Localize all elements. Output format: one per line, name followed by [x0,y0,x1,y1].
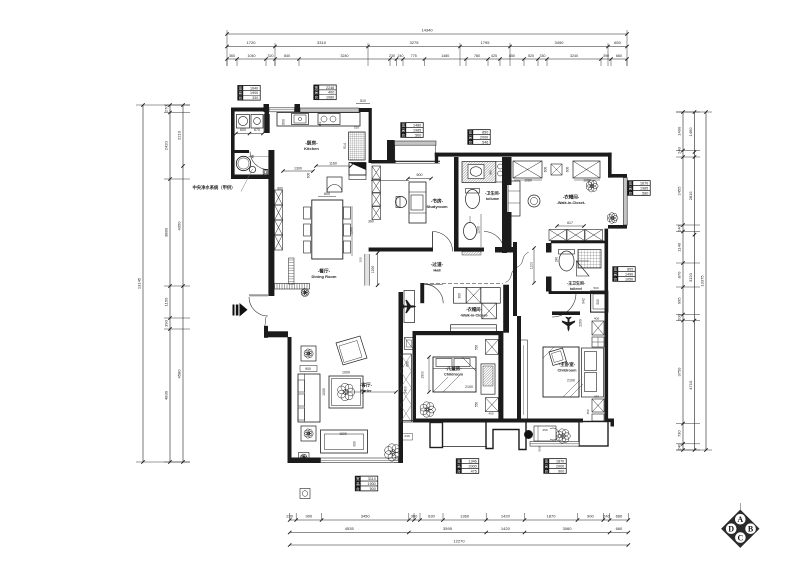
svg-text:500: 500 [593,286,598,290]
svg-text:高: 高 [315,90,319,95]
svg-text:高: 高 [402,127,406,132]
svg-text:台: 台 [469,139,473,144]
svg-text:4350: 4350 [177,221,182,231]
svg-text:2815: 2815 [688,191,693,201]
svg-text:1300: 1300 [294,167,302,171]
svg-text:500: 500 [415,133,421,137]
svg-text:1160: 1160 [329,162,337,166]
svg-text:2400: 2400 [404,386,408,394]
svg-text:高: 高 [545,463,549,468]
svg-text:240: 240 [404,434,409,438]
svg-text:390: 390 [164,319,169,326]
svg-text:670: 670 [254,128,260,132]
svg-text:3240: 3240 [341,54,349,58]
svg-text:500: 500 [505,324,509,330]
svg-text:toilume: toilume [486,197,499,201]
svg-text:宽: 宽 [356,476,360,481]
svg-text:475: 475 [471,469,477,473]
svg-text:1400: 1400 [677,126,682,136]
svg-text:-Walk-in-Closet-: -Walk-in-Closet- [557,201,586,205]
svg-text:855: 855 [627,267,633,271]
svg-text:Hall: Hall [433,267,440,272]
svg-text:D: D [728,524,734,533]
svg-text:1040: 1040 [248,54,256,58]
svg-text:3490: 3490 [555,40,565,45]
svg-text:425: 425 [491,54,497,58]
svg-text:1140: 1140 [677,242,682,251]
svg-text:2455: 2455 [677,186,682,196]
svg-text:775: 775 [411,54,417,58]
svg-text:1100: 1100 [530,262,534,269]
svg-text:高: 高 [629,185,633,190]
svg-text:A: A [737,515,743,524]
svg-text:2000: 2000 [480,135,488,139]
svg-text:320: 320 [268,54,274,58]
svg-text:1600: 1600 [339,432,347,436]
svg-text:1200: 1200 [371,266,375,274]
svg-text:3595: 3595 [443,526,453,531]
svg-text:360: 360 [229,54,235,58]
svg-text:1640: 1640 [250,86,258,90]
svg-text:800: 800 [324,192,330,196]
svg-text:1480: 1480 [413,123,421,127]
svg-text:452: 452 [318,121,322,126]
svg-text:942: 942 [582,298,586,304]
svg-text:510: 510 [360,99,366,103]
svg-text:2260: 2260 [579,319,583,327]
svg-text:230: 230 [389,54,395,58]
svg-text:600: 600 [240,128,246,132]
svg-text:850: 850 [482,130,488,134]
svg-text:台: 台 [614,276,618,281]
svg-text:宽: 宽 [469,129,473,134]
svg-text:toilevel: toilevel [570,287,582,291]
svg-text:台: 台 [315,95,319,100]
svg-text:1460: 1460 [688,127,693,137]
svg-text:高: 高 [469,134,473,139]
svg-text:-衣帽间-: -衣帽间- [563,194,580,201]
svg-text:1346: 1346 [469,459,477,463]
svg-text:-卫生间-: -卫生间- [485,190,501,196]
svg-text:2000: 2000 [469,464,477,468]
svg-text:600: 600 [307,173,311,179]
svg-text:-主卧室-: -主卧室- [559,361,576,368]
svg-text:400: 400 [594,317,599,321]
svg-text:宽: 宽 [629,180,633,185]
svg-text:780: 780 [474,54,480,58]
svg-text:240: 240 [398,54,404,58]
svg-text:300: 300 [411,514,418,519]
svg-text:330: 330 [540,54,546,58]
svg-text:台: 台 [629,190,633,195]
svg-text:1720: 1720 [247,40,257,45]
svg-text:230: 230 [286,514,293,519]
svg-text:617: 617 [567,221,573,225]
svg-text:600: 600 [406,361,410,367]
svg-text:-Walk-in-Closet-: -Walk-in-Closet- [460,313,489,317]
svg-text:730: 730 [677,430,682,437]
svg-text:1870: 1870 [556,459,564,463]
svg-text:1150: 1150 [164,297,169,306]
svg-text:440: 440 [480,332,486,336]
svg-text:330: 330 [252,96,258,100]
svg-text:高: 高 [356,481,360,486]
svg-text:1080: 1080 [326,96,334,100]
svg-text:500: 500 [370,487,376,491]
svg-text:1050: 1050 [625,277,633,281]
svg-text:1420: 1420 [501,514,511,519]
svg-text:1900: 1900 [421,371,425,379]
svg-text:1480: 1480 [441,54,449,58]
svg-text:500: 500 [596,299,600,305]
svg-text:630: 630 [428,514,435,519]
svg-text:宽: 宽 [315,85,319,90]
svg-text:高: 高 [457,463,461,468]
svg-text:3060: 3060 [563,526,573,531]
svg-text:1000: 1000 [342,371,350,375]
svg-text:1490: 1490 [625,272,633,276]
svg-text:1795: 1795 [481,40,491,45]
svg-text:900: 900 [353,441,357,447]
svg-text:C: C [738,533,744,542]
svg-text:2248: 2248 [326,86,334,90]
svg-text:12270: 12270 [453,539,465,544]
svg-text:14340: 14340 [421,28,433,33]
svg-text:1080: 1080 [524,179,532,183]
svg-text:1870: 1870 [547,514,557,519]
svg-text:450: 450 [594,395,599,399]
svg-text:Childroom: Childroom [558,368,578,372]
svg-text:240: 240 [677,146,682,153]
svg-text:550: 550 [475,345,479,351]
svg-text:宽: 宽 [402,122,406,127]
svg-text:600: 600 [417,173,423,177]
svg-text:900: 900 [305,367,311,371]
svg-text:1420: 1420 [501,526,511,531]
svg-text:3310: 3310 [317,40,327,45]
svg-text:510: 510 [354,126,359,130]
svg-text:870: 870 [677,271,682,278]
svg-text:宽: 宽 [545,458,549,463]
svg-text:240: 240 [555,257,559,263]
svg-text:B: B [748,524,754,533]
svg-text:-衣帽间-: -衣帽间- [466,306,482,313]
svg-text:660: 660 [616,54,622,58]
svg-text:-主卫生间-: -主卫生间- [567,281,586,286]
svg-text:3110: 3110 [368,477,376,481]
svg-text:3450: 3450 [361,514,371,519]
svg-text:Childroom: Childroom [444,372,464,376]
svg-text:2420: 2420 [164,141,169,151]
svg-text:3750: 3750 [677,367,682,377]
svg-text:台: 台 [356,486,360,491]
svg-text:300: 300 [458,293,462,299]
svg-text:600: 600 [544,167,548,173]
svg-text:宽: 宽 [457,458,461,463]
svg-text:Kitchen: Kitchen [304,146,319,151]
svg-text:914: 914 [343,143,347,149]
svg-text:900: 900 [587,514,594,519]
svg-text:台: 台 [545,468,549,473]
svg-text:900: 900 [306,514,313,519]
svg-text:台: 台 [402,132,406,137]
svg-text:995: 995 [677,297,682,304]
svg-text:3275: 3275 [410,40,420,45]
svg-text:520: 520 [528,54,534,58]
svg-text:1985: 1985 [413,128,421,132]
svg-text:240: 240 [677,224,682,231]
svg-text:13145: 13145 [137,277,142,289]
svg-text:400: 400 [328,91,334,95]
svg-text:1260: 1260 [350,227,354,235]
svg-text:360: 360 [368,220,374,224]
svg-text:4830: 4830 [164,390,169,400]
svg-text:650: 650 [614,40,621,45]
svg-text:1200: 1200 [477,226,481,234]
svg-text:550: 550 [538,446,542,451]
svg-text:270: 270 [164,105,169,112]
svg-text:13375: 13375 [700,275,705,287]
svg-text:1670: 1670 [640,181,648,185]
svg-text:Dining Room: Dining Room [312,274,337,279]
svg-text:2210: 2210 [177,130,182,140]
svg-text:台: 台 [239,95,243,100]
svg-text:高: 高 [614,271,618,276]
svg-text:3240: 3240 [570,54,578,58]
svg-text:600: 600 [566,167,570,173]
svg-text:1985: 1985 [640,186,648,190]
svg-text:台: 台 [457,468,461,473]
svg-text:1360: 1360 [460,514,470,519]
svg-text:550: 550 [475,402,479,408]
svg-text:4580: 4580 [177,369,182,379]
svg-text:400: 400 [488,412,493,416]
svg-text:4710: 4710 [688,380,693,390]
svg-text:2000: 2000 [556,464,564,468]
svg-text:1900: 1900 [250,91,258,95]
svg-text:546: 546 [482,140,488,144]
svg-text:840: 840 [284,54,290,58]
svg-text:宽: 宽 [614,266,618,271]
svg-text:-儿童房-: -儿童房- [445,365,462,372]
svg-text:600: 600 [282,119,286,125]
svg-text:100: 100 [359,257,363,262]
svg-text:580: 580 [642,191,648,195]
svg-text:1900: 1900 [368,482,376,486]
svg-text:4535: 4535 [345,526,355,531]
svg-text:2100: 2100 [567,379,575,383]
svg-text:660: 660 [616,526,623,531]
svg-text:2100: 2100 [465,385,473,389]
svg-text:宽: 宽 [239,85,243,90]
svg-text:450: 450 [586,409,590,414]
svg-text:Studyroom: Studyroom [426,204,448,209]
svg-text:3880: 3880 [164,227,169,237]
svg-text:900: 900 [489,170,493,175]
svg-text:1000: 1000 [322,388,326,396]
svg-text:660: 660 [616,514,623,519]
svg-text:3120: 3120 [688,272,693,282]
svg-text:900: 900 [558,469,564,473]
svg-text:高: 高 [239,90,243,95]
svg-text:450: 450 [542,428,547,432]
svg-text:中央净水系统（甲供）: 中央净水系统（甲供） [193,184,236,191]
